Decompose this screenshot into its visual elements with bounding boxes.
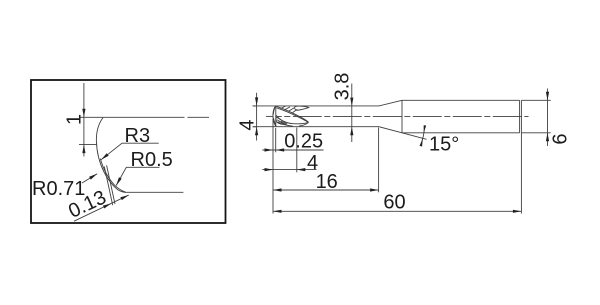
- svg-text:15°: 15°: [429, 133, 459, 155]
- svg-text:16: 16: [316, 171, 338, 193]
- chamfer 0.13 extension line A: [104, 167, 112, 206]
- corner profile curve R3: [96, 118, 126, 193]
- dimension 3.8 line: [351, 84, 353, 143]
- detail view border box: [31, 80, 226, 223]
- dimension 4 length arrow left: [265, 168, 274, 171]
- shank bottom line: [402, 132, 520, 134]
- flute big leaf second edge: [276, 108, 307, 122]
- taper bottom line: [379, 127, 402, 133]
- chamfer 0.13 arrow 1: [103, 203, 111, 208]
- dimension 0.25 arrow right: [276, 148, 285, 151]
- svg-text:R3: R3: [125, 125, 151, 147]
- dimension 0.25 arrow left: [265, 148, 274, 151]
- lower flute inner curve: [277, 120, 284, 125]
- dimension 6 arrow bottom: [546, 133, 549, 142]
- tip face edge vertical: [275, 106, 277, 127]
- dimension 60 arrow right: [513, 210, 522, 213]
- dimension 3.8 arrow bottom: [350, 127, 353, 136]
- dimension 1 arrow top: [82, 109, 85, 118]
- flute top-right leaf: [295, 106, 309, 110]
- dimension 16 line: [273, 189, 379, 191]
- chamfer 0.13 arrow 2: [120, 195, 128, 200]
- svg-text:60: 60: [383, 192, 405, 214]
- taper top line: [379, 100, 402, 106]
- dimension 4 dia extension bottom: [253, 126, 257, 128]
- dimension 60 arrow left: [273, 210, 282, 213]
- svg-text:4: 4: [237, 119, 259, 130]
- svg-text:0.25: 0.25: [284, 131, 323, 153]
- extension line C flute end: [296, 128, 298, 173]
- lower flute curve to bottom line: [277, 122, 293, 126]
- angle arrow top: [424, 125, 426, 133]
- dimension 60 line: [273, 210, 521, 212]
- extension line B face: [275, 128, 277, 152]
- lower-left flute leaf: [276, 117, 287, 124]
- chamfer 0.13 dimension line: [74, 195, 129, 221]
- dimension 1 extension line bottom: [79, 144, 97, 146]
- cutter/neck top line: [253, 105, 379, 107]
- svg-text:R0.5: R0.5: [131, 149, 173, 171]
- flute hatch strokes upper: [281, 106, 298, 113]
- dimension 3.8 arrow top: [350, 98, 353, 107]
- flute hatch strokes lower: [278, 121, 285, 124]
- centerline: [277, 115, 529, 117]
- leader R3 arrow: [101, 153, 109, 160]
- dimension 6 extension top: [521, 99, 550, 101]
- dimension 4 dia line: [256, 93, 258, 141]
- centerline first dash: [266, 115, 273, 117]
- extension line D neck end: [378, 128, 380, 193]
- leader R0.5 arrow: [116, 177, 122, 185]
- dimension 4 length arrow right: [297, 168, 306, 171]
- dimension 6 line: [547, 89, 549, 147]
- dimension 6 extension bottom: [521, 132, 550, 134]
- flute big leaf lower edge: [276, 115, 308, 124]
- tip inner edge lower: [273, 118, 276, 126]
- svg-text:3.8: 3.8: [332, 73, 354, 101]
- svg-text:6: 6: [550, 134, 572, 145]
- leader R0.71: [82, 174, 97, 183]
- bottom face line of detail: [125, 191, 183, 193]
- angle dimension arc: [420, 126, 424, 146]
- leader R0.71 arrow: [89, 174, 97, 180]
- top face line of detail (with centerline gap): [79, 116, 209, 118]
- dimension 1 line: [83, 83, 85, 157]
- extension line E shank end: [520, 133, 522, 214]
- dimension 16 arrow left: [273, 188, 282, 191]
- shank end vertical 2: [520, 100, 522, 133]
- dimension 4 dia extension top: [253, 105, 257, 107]
- flute big leaf upper edge: [276, 106, 308, 122]
- cutter/neck bottom line: [253, 126, 379, 128]
- angle arrow bottom: [420, 139, 423, 147]
- svg-text:1: 1: [64, 114, 86, 125]
- taper bottom extension for angle: [402, 133, 427, 140]
- leader R3: [101, 143, 159, 160]
- shank top line: [402, 99, 520, 101]
- shank end vertical 1: [519, 100, 521, 133]
- dimension 4 length line: [262, 169, 316, 171]
- tip dome profile: [273, 106, 276, 127]
- dimension 16 arrow right: [370, 188, 379, 191]
- dimension 0.25 line: [262, 149, 323, 151]
- extension line A tip: [272, 119, 274, 214]
- leader R0.5: [116, 167, 159, 185]
- chamfer 0.13 extension line B: [107, 165, 115, 204]
- dimension 4 dia arrow top: [255, 97, 258, 106]
- inner fillet curve R0.5: [100, 159, 125, 192]
- dimension 1 arrow bottom: [82, 145, 85, 154]
- dimension 4 dia arrow bottom: [255, 127, 258, 136]
- tip inner edge upper: [273, 106, 275, 114]
- dimension 6 arrow top: [546, 92, 549, 101]
- flute leaf to bottom connector: [299, 122, 309, 126]
- shank start vertical: [401, 100, 403, 133]
